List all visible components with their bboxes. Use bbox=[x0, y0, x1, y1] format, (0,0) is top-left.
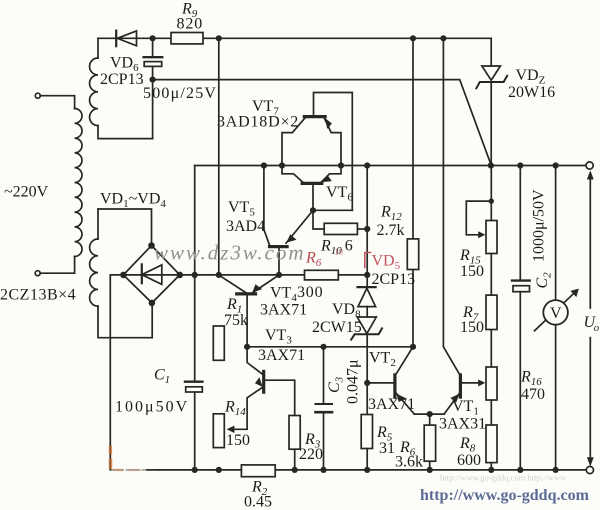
resistor R1 bbox=[213, 326, 224, 360]
wire secondary2 upper stem bbox=[97, 209, 99, 239]
wire VD5 VD8 chain x=367.2 bbox=[366, 166, 368, 470]
wire R6 leads bbox=[429, 414, 431, 470]
svg-text:VD1~VD4: VD1~VD4 bbox=[100, 191, 166, 211]
wire C2 branch x=520.3 bbox=[519, 166, 521, 470]
wire VT1 base lead bbox=[461, 382, 479, 384]
wire VT7 base loop bbox=[314, 93, 353, 211]
orange artifact marks left bottom bbox=[109, 446, 142, 472]
svg-text:www.dz3w.com: www.dz3w.com bbox=[154, 241, 306, 265]
wire R12 bottom to VT2 collector node bbox=[412, 270, 414, 347]
transistor VT6 base bar bbox=[302, 182, 322, 185]
svg-text:220: 220 bbox=[299, 446, 323, 463]
potentiometer R16 bbox=[486, 367, 497, 400]
wire zener branch x=491.2 bbox=[490, 38, 492, 165]
svg-text:3AX71: 3AX71 bbox=[258, 347, 305, 364]
svg-text:31: 31 bbox=[379, 440, 395, 457]
wire secondary1 bottom lead bbox=[98, 126, 153, 139]
wire secondary2 bottom lead bbox=[98, 303, 152, 338]
terminal circle AC top bbox=[35, 93, 40, 98]
svg-text:C3: C3 bbox=[326, 376, 346, 393]
arrowhead voltmeter pointer bbox=[570, 289, 579, 298]
svg-text:VT6: VT6 bbox=[326, 184, 353, 204]
svg-text:0.047μ: 0.047μ bbox=[345, 359, 362, 404]
wire output rail y=165.5 bbox=[195, 165, 586, 167]
diode VD6 bbox=[116, 31, 136, 47]
svg-text:~220V: ~220V bbox=[4, 184, 49, 201]
diode VD5 bbox=[358, 287, 376, 307]
transistor VT1 base bar bbox=[459, 375, 462, 397]
svg-text:150: 150 bbox=[460, 263, 484, 280]
svg-text:C2: C2 bbox=[534, 272, 554, 289]
svg-text:20W16: 20W16 bbox=[508, 84, 555, 101]
svg-text:10: 10 bbox=[334, 247, 344, 257]
resistor R2 bbox=[241, 465, 275, 477]
wire node C5 vertical x=152.6 bbox=[152, 38, 154, 138]
svg-text:V: V bbox=[550, 305, 562, 322]
transistor VT7 base bar bbox=[304, 115, 325, 118]
wire top bus y=38 bbox=[98, 37, 491, 39]
wire VT5 collector lead bbox=[264, 166, 270, 246]
svg-text:2CZ13B×4: 2CZ13B×4 bbox=[0, 287, 76, 304]
svg-text:2.7k: 2.7k bbox=[377, 222, 405, 239]
wire VT3 emitter to R14 wiper bbox=[232, 387, 263, 429]
svg-text:150: 150 bbox=[460, 319, 484, 336]
resistor R7 bbox=[486, 295, 497, 329]
resistor R6 bbox=[424, 425, 435, 461]
wire VT2 emitter diagonal bbox=[397, 394, 415, 415]
transformer secondary winding 1 bbox=[90, 58, 98, 126]
bridge rectifier VD1-VD4 diamond bbox=[123, 246, 179, 303]
wire VT7 collector lead bbox=[282, 118, 305, 166]
svg-text:R6: R6 bbox=[305, 250, 322, 270]
svg-text:VT3: VT3 bbox=[265, 327, 292, 347]
wire R15 wiper loop bbox=[466, 201, 491, 235]
wire VT5 emitter lead bbox=[286, 210, 313, 243]
svg-text:0.45: 0.45 bbox=[244, 494, 272, 510]
output terminal top bbox=[586, 162, 593, 169]
wire x=443.4 top bus to VT1 collector bbox=[443, 38, 459, 374]
capacitor C2 plates bbox=[512, 281, 530, 292]
arrowhead VT1 emitter bbox=[450, 394, 459, 403]
rheostat R15 bbox=[486, 221, 497, 254]
arrowhead Uo bottom bbox=[587, 457, 594, 466]
arrowhead Uo top bbox=[587, 170, 594, 179]
wire y=346.8 VT4 base to R12 node bbox=[247, 346, 415, 348]
wire primary top lead bbox=[40, 96, 74, 109]
capacitor C3 plates bbox=[316, 404, 333, 412]
svg-text:470: 470 bbox=[521, 386, 545, 403]
svg-text:2CP13: 2CP13 bbox=[372, 271, 416, 288]
transistor VT3 base bar bbox=[262, 371, 265, 392]
wire +bus y=274.9 bbox=[180, 274, 367, 276]
wire secondary1 top lead bbox=[97, 38, 99, 58]
resistor R5 bbox=[361, 415, 372, 449]
wire VT4 emitter diagonal bbox=[252, 275, 278, 293]
svg-text:820: 820 bbox=[177, 16, 204, 33]
arrowhead VT7 emitter bbox=[325, 118, 332, 129]
svg-text:100μ50V: 100μ50V bbox=[115, 399, 189, 416]
wire VT2 collector diagonal bbox=[396, 347, 413, 375]
wire y=79.6 horizontal to zener foot bbox=[153, 80, 491, 165]
svg-text:300: 300 bbox=[297, 284, 323, 301]
wire voltmeter branch x=555.6 bbox=[555, 166, 557, 470]
resistor 300 bbox=[305, 270, 339, 280]
wire R3 bottom bbox=[294, 449, 296, 470]
wire secondary2 top lead bbox=[98, 209, 152, 246]
bridge inner diode bbox=[123, 264, 179, 284]
wire x=413 top bus to R12 bbox=[412, 38, 414, 239]
wire bottom bus faint left part bbox=[110, 469, 147, 471]
wire VT6 emitter lead bbox=[282, 166, 303, 183]
zener VD8 bbox=[351, 317, 382, 340]
wire VT3 base to R3 bbox=[265, 380, 295, 415]
svg-text:VT2: VT2 bbox=[369, 350, 396, 370]
svg-text:R12: R12 bbox=[380, 204, 402, 224]
voltmeter circle bbox=[543, 300, 568, 325]
wire bottom bus y=469.9 bbox=[158, 469, 586, 471]
wire VT3 collector bbox=[247, 347, 263, 375]
wire rail elbow down x=194.7 through C1 bbox=[194, 166, 196, 470]
wire VT2 base lead bbox=[367, 382, 394, 384]
svg-text:http://www.go-gddq.com http://: http://www.go-gddq.com http://www bbox=[440, 473, 567, 483]
wire VT4 collector diagonal bbox=[219, 275, 247, 293]
svg-text:3AX31: 3AX31 bbox=[439, 416, 486, 433]
arrowhead R14 wiper bbox=[227, 426, 235, 433]
svg-text:VD5: VD5 bbox=[372, 253, 401, 273]
watermark red bracket bbox=[365, 253, 371, 268]
svg-text:3AD4: 3AD4 bbox=[226, 218, 265, 235]
wire VT1 emitter diagonal bbox=[444, 394, 459, 415]
wire output Uo measuring line bbox=[589, 176, 591, 462]
wire R15 chain x=491.3 bbox=[490, 166, 492, 470]
resistor R8 bbox=[486, 425, 497, 463]
wire VT7 emitter lead bbox=[324, 118, 341, 166]
capacitor 500u25V plates bbox=[144, 57, 163, 66]
terminal circle AC bottom bbox=[35, 271, 40, 276]
svg-text:150: 150 bbox=[226, 432, 250, 449]
transistor VT4 base bar bbox=[237, 292, 256, 295]
transistor VT2 base bar bbox=[393, 375, 396, 397]
resistor R3 bbox=[289, 416, 300, 450]
arrowhead VT3 emitter bbox=[255, 377, 263, 387]
arrowhead R15 wiper bbox=[478, 231, 485, 238]
wire primary bottom lead bbox=[40, 257, 75, 274]
arrowhead VT4 emitter bbox=[252, 284, 262, 293]
capacitor C1 plates bbox=[185, 382, 202, 392]
svg-text:R14: R14 bbox=[224, 399, 246, 419]
resistor R10 bbox=[324, 223, 357, 234]
svg-text:500μ/25V: 500μ/25V bbox=[143, 85, 217, 102]
wire C3 branch x=323.5 bbox=[323, 347, 325, 470]
resistor R12 bbox=[407, 239, 418, 270]
wire VT4 base stem bbox=[246, 295, 248, 347]
svg-text:600: 600 bbox=[457, 452, 481, 469]
svg-text:http://www.go-gddq.com: http://www.go-gddq.com bbox=[420, 487, 590, 504]
wire minus branch x=110.3 from bridge left corner bbox=[110, 275, 123, 470]
rheostat R14 bbox=[213, 414, 224, 448]
arrowhead VT6 collector bbox=[321, 176, 332, 183]
transformer primary winding bbox=[75, 109, 82, 257]
svg-text:2CW15: 2CW15 bbox=[312, 319, 362, 336]
svg-text:C1: C1 bbox=[154, 367, 170, 387]
transformer secondary winding 2 bbox=[90, 239, 98, 306]
arrowhead VT5 emitter bbox=[286, 234, 296, 242]
wire voltmeter arrow shaft bbox=[535, 293, 575, 331]
zener VDZ bbox=[476, 66, 507, 88]
svg-text:VT5: VT5 bbox=[228, 199, 255, 219]
svg-text:Uo: Uo bbox=[584, 314, 600, 334]
resistor R9 bbox=[171, 33, 203, 44]
svg-text:3AX71: 3AX71 bbox=[260, 302, 307, 319]
svg-text:VD8: VD8 bbox=[332, 301, 361, 321]
wire R10 right lead bbox=[357, 228, 367, 230]
output terminal bottom bbox=[586, 466, 593, 473]
wire VT5 base lead bbox=[278, 248, 280, 275]
wire VT6 base node y=210.3 bbox=[313, 185, 352, 229]
wire x=218.8 top bus to +bus bbox=[218, 38, 220, 275]
svg-text:3AX71: 3AX71 bbox=[368, 396, 415, 413]
wire VT6 collector lead bbox=[321, 166, 341, 183]
svg-text:2CP13: 2CP13 bbox=[100, 71, 144, 88]
svg-text:75k: 75k bbox=[224, 312, 248, 329]
arrowhead VT2 emitter bbox=[396, 394, 406, 402]
arrowhead VT1 base into R16 bbox=[478, 379, 485, 386]
wire shared emitter node y=414.1 bbox=[414, 413, 444, 415]
svg-text:1000μ/50V: 1000μ/50V bbox=[531, 189, 548, 262]
transistor VT5 base bar bbox=[270, 245, 288, 248]
svg-text:3.6k: 3.6k bbox=[395, 454, 423, 471]
svg-text:3AD18D×2: 3AD18D×2 bbox=[217, 114, 299, 131]
